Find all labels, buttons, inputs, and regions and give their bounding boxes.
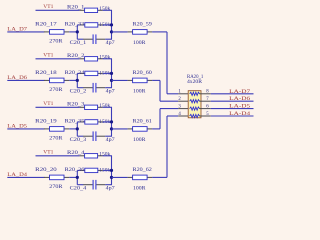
resistor R20_1 [85,8,98,12]
svg-text:VT1: VT1 [43,4,53,10]
capacitor C20_1 plates [92,34,94,44]
resistor R20_4 [85,154,98,158]
resistor R20_17 pins [44,31,50,33]
wire branch-down left row 2 [77,87,83,89]
resistor R20_36 pins [80,169,85,171]
node A row 4 junction [76,176,79,179]
RA20 pin 5 lead [199,115,210,117]
resistor element 1 inside RA20_1 [190,92,200,95]
svg-text:VT1: VT1 [43,101,53,107]
wire node B to R20_62 [112,176,128,178]
resistor R20_59 [133,30,148,35]
wire R20_59 to corner row 1 [152,31,167,33]
wire left bracket row 3 [76,122,78,136]
wire branch-up right row 4 [103,169,112,171]
node B row 3 junction [110,127,113,130]
node B row 2 junction [110,79,113,82]
svg-text:R20_20: R20_20 [35,167,57,173]
wire from R20_4 to vertical row 4 [103,155,112,157]
junction vertical/branch-up row 3 [110,120,113,123]
svg-text:VT1: VT1 [43,53,53,59]
wire vertical to RA20 pin 2 [159,80,161,101]
svg-text:150k: 150k [99,103,110,109]
svg-text:100R: 100R [133,88,146,94]
wire branch-up right row 3 [103,121,112,123]
svg-text:100R: 100R [133,185,146,191]
svg-text:4x20R: 4x20R [187,79,202,85]
wire VT1 row 1 [36,9,80,11]
wire branch-down left row 3 [77,135,83,137]
capacitor C20_3 plates [92,131,94,141]
svg-text:LA-D7: LA-D7 [229,89,250,95]
svg-text:C20_1: C20_1 [70,40,87,46]
resistor R20_2 pins [80,58,85,60]
wire net LA-D5 [211,108,254,110]
wire to RA20 pin 3 [160,108,178,110]
wire R20_62 to corner row 4 [152,176,167,178]
capacitor C20_4 plates [92,180,94,190]
node B row 1 junction [110,30,113,33]
resistor R20_34 [85,71,98,75]
wire left bracket row 2 [76,73,78,87]
RA20 pin 4 lead [178,115,190,117]
wire branch-up right row 1 [103,24,112,26]
node A row 1 junction [76,30,79,33]
resistor R20_1 pins [80,9,85,11]
wire LA_D7 [7,31,44,33]
capacitor C20_3 pins [83,135,92,137]
svg-text:R20_3: R20_3 [67,102,85,108]
RA20 pin 8 lead [199,93,210,95]
RA20 pin 1 lead [178,93,190,95]
wire vertical x=111.5 row 1 [111,10,113,39]
svg-text:4p7: 4p7 [106,88,115,94]
svg-text:R20_19: R20_19 [35,118,57,124]
wire to RA20 pin 2 [160,100,178,102]
wire node B to R20_61 [112,128,128,130]
svg-text:R20_59: R20_59 [133,21,153,27]
svg-text:270R: 270R [49,136,63,142]
svg-text:R20_4: R20_4 [67,150,85,156]
svg-text:R20_60: R20_60 [133,70,153,76]
svg-text:LA-D5: LA-D5 [229,104,250,110]
wire branch-down right row 1 [105,38,112,40]
svg-text:C20_4: C20_4 [70,185,87,191]
svg-text:150k: 150k [99,54,110,60]
junction vertical/branch-up row 1 [110,23,113,26]
svg-text:4p7: 4p7 [106,40,115,46]
wire from R20_2 to vertical row 2 [103,58,112,60]
svg-text:R20_61: R20_61 [133,118,153,124]
capacitor C20_4 pins [83,184,92,186]
wire to node A row 2 [69,79,77,81]
resistor R20_59 pins [128,31,133,33]
resistor R20_20 [50,175,65,180]
wire vertical x=111.5 row 2 [111,59,113,88]
svg-text:270R: 270R [49,87,63,93]
svg-text:150k: 150k [99,6,110,12]
wire node B to R20_59 [112,31,128,33]
svg-text:4p7: 4p7 [106,185,115,191]
resistor R20_4 pins [80,155,85,157]
resistor R20_35 [85,120,98,124]
junction vertical/branch-up row 4 [110,169,113,172]
resistor R20_34 pins [80,72,85,74]
RA20 pin 3 lead [178,108,190,110]
wire branch-up left row 2 [77,72,80,74]
wire to node A row 3 [69,128,77,130]
wire VT1 row 2 [36,58,80,60]
svg-text:4p7: 4p7 [106,137,115,143]
resistor element 2 inside RA20_1 [190,100,200,103]
wire to node A row 4 [69,176,77,178]
resistor R20_33 pins [80,24,85,26]
svg-text:R20_34: R20_34 [65,70,85,76]
svg-text:LA-D4: LA-D4 [229,111,250,117]
wire R20_60 to corner row 2 [152,79,160,81]
RA20 pin 6 lead [199,108,210,110]
resistor element 4 inside RA20_1 [190,114,200,117]
wire branch-up right row 2 [103,72,112,74]
wire branch-down right row 3 [105,135,112,137]
svg-text:270R: 270R [49,184,63,190]
svg-text:LA-D6: LA-D6 [229,96,250,102]
resistor R20_60 pins [128,79,133,81]
resistor R20_19 [50,127,65,132]
wire to node A row 1 [69,31,77,33]
svg-text:R20_62: R20_62 [133,167,153,173]
wire VT1 row 3 [36,106,80,108]
wire branch-up left row 1 [77,24,80,26]
resistor R20_2 [85,57,98,61]
wire LA_D5 [7,128,44,130]
wire vertical x=111.5 row 4 [111,156,113,185]
svg-text:C20_3: C20_3 [70,137,87,143]
resistor R20_3 [85,105,98,109]
wire branch-down left row 1 [77,38,83,40]
wire net LA-D7 [211,93,254,95]
svg-text:VT1: VT1 [43,150,53,156]
node A row 3 junction [76,127,79,130]
wire node B to R20_60 [112,79,128,81]
resistor R20_35 pins [80,121,85,123]
resistor R20_20 pins [44,176,50,178]
svg-text:R20_35: R20_35 [65,118,85,124]
resistor element 3 inside RA20_1 [190,107,200,110]
resistor R20_19 pins [44,128,50,130]
wire to RA20 pin 4 [167,115,178,117]
svg-text:C20_2: C20_2 [70,88,87,94]
capacitor C20_2 plates [92,83,94,93]
resistor R20_18 [50,78,65,83]
wire branch-down right row 4 [105,184,112,186]
resistor R20_60 [133,78,148,83]
node B row 4 junction [110,176,113,179]
wire branch-down right row 2 [105,87,112,89]
resistor R20_62 pins [128,176,133,178]
wire left bracket row 4 [76,170,78,184]
wire LA_D4 [7,176,44,178]
capacitor C20_1 pins [83,38,92,40]
wire net LA-D4 [211,115,254,117]
svg-text:270R: 270R [49,39,63,45]
wire LA_D6 [7,79,44,81]
svg-text:R20_18: R20_18 [35,70,57,76]
wire vertical to RA20 pin 1 [166,32,168,94]
RA20 pin 2 lead [178,100,190,102]
node A row 2 junction [76,79,79,82]
svg-text:R20_36: R20_36 [65,167,85,173]
resistor R20_33 [85,23,98,27]
wire to RA20 pin 1 [167,93,178,95]
resistor R20_17 [50,30,65,35]
svg-text:R20_33: R20_33 [65,21,85,27]
svg-text:R20_1: R20_1 [67,5,85,11]
wire vertical to RA20 pin 4 [166,116,168,177]
junction vertical/branch-up row 2 [110,72,113,75]
resistor R20_18 pins [44,79,50,81]
wire net LA-D6 [211,100,254,102]
resistor R20_3 pins [80,106,85,108]
capacitor C20_2 pins [83,87,92,89]
resistor array RA20_1 4x20R body [188,91,201,118]
wire VT1 row 4 [36,155,80,157]
resistor R20_61 [133,127,148,132]
wire vertical x=111.5 row 3 [111,107,113,136]
wire branch-up left row 4 [77,169,80,171]
svg-text:100R: 100R [133,137,146,143]
svg-text:R20_2: R20_2 [67,53,85,59]
svg-text:150k: 150k [99,151,110,157]
wire from R20_3 to vertical row 3 [103,106,112,108]
svg-text:100R: 100R [133,40,146,46]
wire branch-up left row 3 [77,121,80,123]
wire left bracket row 1 [76,25,78,39]
wire branch-down left row 4 [77,184,83,186]
resistor R20_36 [85,168,98,172]
resistor R20_62 [133,175,148,180]
resistor R20_61 pins [128,128,133,130]
wire from R20_1 to vertical row 1 [103,9,112,11]
RA20 pin 7 lead [199,100,210,102]
wire vertical to RA20 pin 3 [159,109,161,129]
svg-text:R20_17: R20_17 [35,21,57,27]
wire R20_61 to corner row 3 [152,128,160,130]
